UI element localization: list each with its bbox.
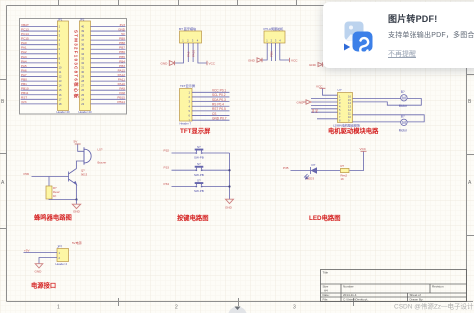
svg-text:VCC: VCC <box>209 62 216 66</box>
svg-text:PA0: PA0 <box>21 41 27 45</box>
svg-text:PA9: PA9 <box>187 51 191 57</box>
svg-text:VCC: VCC <box>316 85 323 89</box>
ground (J4 left) <box>257 58 262 63</box>
motor driver U2 <box>338 93 353 123</box>
svg-text:JP?: JP? <box>57 245 63 249</box>
junction <box>228 169 230 171</box>
svg-text:GND P0.7: GND P0.7 <box>212 117 227 121</box>
MCU right pin wires <box>91 27 126 104</box>
ground (stray, right of servo) <box>318 62 323 67</box>
popup card: image-to-PDF <box>323 2 474 68</box>
wire (emitter rail) <box>76 185 78 200</box>
wire (U2 to motor B1) <box>353 99 422 106</box>
svg-text:SW-PB: SW-PB <box>194 173 204 177</box>
svg-text:S?: S? <box>197 179 201 183</box>
svg-text:LS?: LS? <box>98 148 103 152</box>
svg-text:STM32F103C8T6核心板: STM32F103C8T6核心板 <box>73 30 80 99</box>
svg-text:PA2: PA2 <box>21 50 27 54</box>
junction <box>75 198 77 200</box>
header J2 (right column) <box>80 21 91 111</box>
svg-text:GND: GND <box>297 100 305 104</box>
svg-text:GND: GND <box>225 206 233 210</box>
scroll handle <box>228 307 247 313</box>
svg-text:RST P0.5: RST P0.5 <box>212 107 226 111</box>
wire (buzzer top to 5V) <box>78 144 84 151</box>
svg-text:B?: B? <box>401 90 405 94</box>
svg-text:P06: P06 <box>24 172 30 176</box>
power VCC (J4 right) <box>289 58 291 63</box>
svg-text:1K: 1K <box>53 194 57 198</box>
resistor R2 <box>341 168 350 172</box>
resistor R1 <box>48 177 50 187</box>
svg-text:PA6: PA6 <box>21 68 27 72</box>
svg-text:按键电路图: 按键电路图 <box>177 213 208 222</box>
svg-text:Header 2: Header 2 <box>56 262 68 266</box>
ground (keys) <box>226 199 234 203</box>
svg-text:A4: A4 <box>324 289 328 293</box>
svg-text:PC14: PC14 <box>21 32 29 36</box>
ground (power) <box>35 264 43 268</box>
U2 left input wires <box>311 99 338 119</box>
svg-text:U?: U? <box>338 88 342 92</box>
buzzer LS1 <box>84 149 91 163</box>
motor B1 <box>401 95 407 101</box>
svg-text:P34: P34 <box>164 182 170 186</box>
svg-text:PA1: PA1 <box>21 46 27 50</box>
junction <box>228 185 230 187</box>
wire to VCC <box>350 152 364 171</box>
J5 pin wires <box>192 92 230 120</box>
J5 wire net labels <box>212 89 227 121</box>
svg-text:Motor: Motor <box>399 104 408 108</box>
svg-text:PA7: PA7 <box>21 73 27 77</box>
svg-text:L298N电机驱动模块: L298N电机驱动模块 <box>333 123 360 128</box>
svg-text:1: 1 <box>57 305 60 311</box>
svg-text:Title: Title <box>323 271 329 275</box>
zone labels <box>1 99 472 311</box>
J1 J2 header designators <box>57 17 93 114</box>
switch S1 <box>172 150 230 153</box>
svg-text:PA15: PA15 <box>118 68 126 72</box>
svg-text:电机驱动模块电路: 电机驱动模块电路 <box>328 126 379 135</box>
svg-text:S?: S? <box>197 162 201 166</box>
svg-text:3: 3 <box>293 305 296 311</box>
J4 middle net labels <box>270 51 274 57</box>
wire (collector) <box>77 161 85 169</box>
svg-text:TFT显示屏: TFT显示屏 <box>180 126 211 135</box>
svg-text:PH-A伺服舵机: PH-A伺服舵机 <box>264 26 285 31</box>
svg-text:PB7: PB7 <box>119 46 125 50</box>
svg-text:PA3: PA3 <box>21 55 27 59</box>
svg-text:GND: GND <box>118 27 126 31</box>
svg-text:TFT显示屏: TFT显示屏 <box>180 84 195 88</box>
MCU left pin net labels <box>21 23 29 104</box>
transistor Q1 <box>69 169 77 185</box>
header J1 (left column) <box>58 21 69 111</box>
svg-text:SCL P0.2: SCL P0.2 <box>212 93 226 97</box>
svg-text:B?: B? <box>401 114 405 118</box>
svg-text:PB8: PB8 <box>119 41 125 45</box>
ground (J3 left) <box>169 61 174 66</box>
svg-text:GND: GND <box>161 62 169 66</box>
J3 middle net labels <box>187 50 196 57</box>
J1 pin numbers <box>59 25 62 106</box>
svg-text:P35: P35 <box>283 166 289 170</box>
svg-text:3V3: 3V3 <box>119 23 125 27</box>
power VCC (LED) <box>361 150 367 152</box>
svg-text:RST: RST <box>21 96 27 100</box>
wire (base) <box>32 176 69 178</box>
svg-text:PB3: PB3 <box>119 64 125 68</box>
svg-text:LED电路图: LED电路图 <box>309 213 341 222</box>
svg-text:Motor: Motor <box>399 128 408 132</box>
power VCC (U2) <box>323 89 338 96</box>
svg-text:SW-PB: SW-PB <box>194 156 204 160</box>
MCU left pin wires <box>21 27 58 104</box>
svg-text:Revision: Revision <box>432 285 444 289</box>
popup icon <box>335 16 395 76</box>
svg-text:Buzzer: Buzzer <box>98 161 107 165</box>
svg-text:VBAT: VBAT <box>21 23 29 27</box>
svg-text:File:: File: <box>323 298 329 302</box>
wire (+5V) <box>24 252 58 254</box>
MCU core board U1 outer box <box>20 19 127 115</box>
TFT header J5 <box>180 89 193 122</box>
svg-text:PA11: PA11 <box>118 78 125 82</box>
title block <box>321 270 467 302</box>
wire (key bus) <box>229 153 231 199</box>
svg-text:PB14: PB14 <box>117 100 125 104</box>
svg-text:IN2: IN2 <box>315 108 319 113</box>
svg-text:PB5: PB5 <box>119 55 125 59</box>
svg-text:VCC P0.1: VCC P0.1 <box>212 89 226 93</box>
ground (U2) <box>303 100 312 104</box>
svg-text:P33: P33 <box>164 166 170 170</box>
svg-text:CS: CS <box>212 112 216 116</box>
svg-text:GND: GND <box>309 63 317 67</box>
svg-text:D?: D? <box>312 163 316 167</box>
svg-text:GND: GND <box>35 270 43 274</box>
svg-text:PB15: PB15 <box>117 96 125 100</box>
svg-text:PA10: PA10 <box>118 82 126 86</box>
svg-text:SDA P0.3: SDA P0.3 <box>212 98 226 102</box>
svg-text:PC15: PC15 <box>21 37 29 41</box>
svg-text:C:\Users\Desktop\..: C:\Users\Desktop\.. <box>343 298 369 302</box>
svg-text:M: M <box>402 96 406 101</box>
svg-text:1K: 1K <box>341 177 345 181</box>
svg-text:CSDN @伟源Zz—电子设计: CSDN @伟源Zz—电子设计 <box>394 302 474 311</box>
svg-text:VCC: VCC <box>360 147 367 151</box>
svg-text:P32: P32 <box>164 149 170 153</box>
svg-text:JP1: JP1 <box>58 17 63 21</box>
power 5V <box>75 143 81 145</box>
wire <box>291 170 311 172</box>
svg-text:S?: S? <box>197 145 201 149</box>
U2 input net labels <box>311 108 318 113</box>
svg-text:Header 7: Header 7 <box>180 122 192 126</box>
svg-text:GND: GND <box>73 210 81 214</box>
J4 pin wires <box>262 43 290 61</box>
svg-text:VCC: VCC <box>291 59 298 63</box>
J3 pin wires <box>175 43 208 63</box>
svg-text:PB6: PB6 <box>270 51 274 57</box>
switch S2 <box>172 168 230 171</box>
svg-text:PA9: PA9 <box>119 87 125 91</box>
svg-text:9013: 9013 <box>81 173 88 177</box>
switch S3 <box>172 184 230 187</box>
svg-text:3V3: 3V3 <box>21 100 27 104</box>
svg-text:PB0: PB0 <box>21 78 27 82</box>
svg-text:GND: GND <box>248 59 256 63</box>
svg-text:BT 蓝牙模块: BT 蓝牙模块 <box>179 26 196 31</box>
svg-text:PB4: PB4 <box>119 59 125 63</box>
wire <box>317 170 340 172</box>
svg-text:PA5: PA5 <box>21 64 27 68</box>
wire (U2 to motor B2) <box>353 115 425 122</box>
wire (resistor to emitter rail) <box>49 198 77 201</box>
svg-text:PC13: PC13 <box>21 27 29 31</box>
MCU right pin net labels <box>117 23 126 104</box>
svg-text:PB11: PB11 <box>21 91 29 95</box>
svg-text:M: M <box>402 120 406 125</box>
svg-text:PA12: PA12 <box>118 73 126 77</box>
svg-text:RS P0.4: RS P0.4 <box>212 103 224 107</box>
svg-text:Header 20: Header 20 <box>57 110 71 114</box>
svg-text:PB10: PB10 <box>21 87 29 91</box>
svg-text:LED3: LED3 <box>307 177 315 181</box>
svg-text:R?: R? <box>341 164 345 168</box>
J2 pin numbers <box>81 25 84 106</box>
svg-text:PA8: PA8 <box>119 91 125 95</box>
svg-text:PB1: PB1 <box>21 82 27 86</box>
svg-text:PA4: PA4 <box>21 59 27 63</box>
motor B2 <box>401 119 407 125</box>
svg-text:PB6: PB6 <box>119 50 125 54</box>
svg-text:PB9: PB9 <box>119 37 125 41</box>
svg-text:SW-PB: SW-PB <box>194 189 204 193</box>
svg-text:电源接口: 电源接口 <box>31 281 56 290</box>
svg-text:+5V: +5V <box>24 249 31 253</box>
LED D1 <box>310 167 312 174</box>
wire (gnd) <box>39 258 57 264</box>
svg-text:蜂鸣器电路图: 蜂鸣器电路图 <box>34 213 72 222</box>
svg-text:2: 2 <box>175 305 178 311</box>
svg-text:Number: Number <box>343 285 354 289</box>
svg-text:5V电源: 5V电源 <box>72 240 82 245</box>
ground (buzzer) <box>76 200 78 205</box>
svg-text:Header 20: Header 20 <box>79 110 93 114</box>
svg-text:Drawn By:: Drawn By: <box>410 298 424 302</box>
power VCC (J3 right) <box>206 61 208 66</box>
svg-text:JP2: JP2 <box>80 17 85 21</box>
svg-text:PA10: PA10 <box>191 50 195 57</box>
